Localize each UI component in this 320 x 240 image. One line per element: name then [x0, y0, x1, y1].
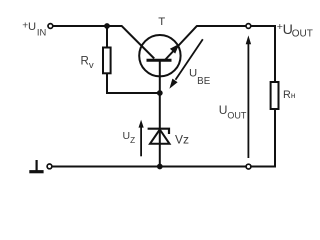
svg-text:IN: IN [37, 27, 46, 38]
transistor emitter arrowhead [170, 44, 180, 54]
wire base node through zener to bottom rail [159, 93, 161, 167]
svg-text:Rv: Rv [81, 55, 94, 71]
wire top rail left (input terminal to corner) [53, 25, 122, 27]
wire collector diagonal [121, 26, 154, 59]
ground [29, 160, 43, 172]
junction dot base node [157, 90, 163, 96]
junction dot zener / bottom rail [157, 164, 163, 170]
arrow UZ (zener voltage, pointing up) [139, 120, 144, 157]
resistor RV body [103, 48, 111, 74]
svg-text:UZ: UZ [123, 130, 136, 145]
wire right column lower (RH to bottom rail) [52, 109, 275, 167]
zener diode Vz cathode bar with bent tail [148, 129, 169, 134]
terminal +UIN open circle [48, 24, 53, 29]
svg-text:Rн: Rн [283, 89, 295, 101]
resistor RH body [271, 82, 279, 109]
terminal bottom-left open circle [47, 164, 52, 169]
svg-text:T: T [158, 16, 165, 28]
wire base lead (transistor base to node) [159, 61, 161, 93]
wire RV bottom lead to base node [107, 73, 160, 93]
wire emitter diagonal to output rail [164, 26, 197, 61]
label +UOUT (top right) [277, 21, 313, 39]
svg-text:UBE: UBE [189, 68, 211, 88]
wire right column upper (to RH) [274, 25, 276, 82]
svg-text:OUT: OUT [292, 28, 313, 39]
label +UIN [22, 21, 46, 38]
terminal +UOUT open circle [246, 24, 251, 29]
wire top rail right [197, 25, 276, 27]
terminal bottom-right open circle [246, 164, 251, 169]
arrow UOUT (output voltage, pointing up) [246, 35, 251, 158]
zener diode Vz triangle [150, 130, 170, 144]
svg-text:UOUT: UOUT [219, 103, 247, 120]
transistor base bar [147, 59, 172, 62]
transistor Q1 circle [139, 35, 180, 76]
wire RV top lead [106, 26, 108, 48]
junction dot input rail / RV [104, 23, 110, 29]
svg-text:U: U [28, 21, 36, 33]
svg-text:Vz: Vz [175, 133, 189, 147]
arrow UBE (base-emitter voltage, diagonal) [169, 39, 202, 88]
